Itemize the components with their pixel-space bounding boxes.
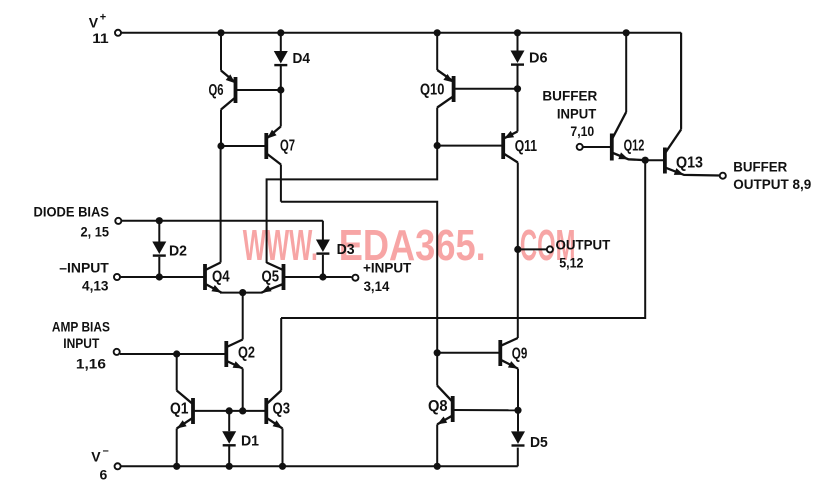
svg-text:Q13: Q13 bbox=[676, 155, 703, 172]
svg-text:+: + bbox=[100, 12, 106, 24]
svg-text:Q11: Q11 bbox=[515, 138, 538, 155]
svg-text:D3: D3 bbox=[337, 241, 355, 258]
svg-text:6: 6 bbox=[100, 466, 108, 482]
svg-text:3,14: 3,14 bbox=[364, 278, 390, 294]
svg-text:D4: D4 bbox=[293, 50, 311, 67]
svg-text:Q5: Q5 bbox=[262, 269, 280, 286]
svg-text:Q3: Q3 bbox=[273, 401, 291, 418]
svg-text:DIODE BIAS: DIODE BIAS bbox=[34, 204, 110, 220]
svg-text:WWW.: WWW. bbox=[243, 221, 318, 270]
svg-text:–INPUT: –INPUT bbox=[59, 260, 109, 276]
svg-text:D5: D5 bbox=[530, 434, 548, 451]
svg-text:AMP BIAS: AMP BIAS bbox=[52, 318, 110, 334]
svg-text:11: 11 bbox=[92, 30, 109, 46]
svg-text:Q1: Q1 bbox=[170, 401, 189, 418]
svg-text:Q9: Q9 bbox=[512, 346, 528, 363]
svg-text:EDA365.: EDA365. bbox=[339, 221, 486, 270]
svg-text:BUFFER: BUFFER bbox=[733, 159, 787, 175]
svg-text:Q10: Q10 bbox=[420, 81, 444, 98]
svg-text:1,16: 1,16 bbox=[76, 356, 106, 372]
svg-text:5,12: 5,12 bbox=[559, 255, 583, 271]
svg-text:Q2: Q2 bbox=[238, 345, 255, 362]
svg-text:INPUT: INPUT bbox=[557, 105, 597, 121]
svg-text:OUTPUT 8,9: OUTPUT 8,9 bbox=[733, 176, 811, 192]
svg-text:Q7: Q7 bbox=[280, 138, 295, 155]
svg-text:2, 15: 2, 15 bbox=[81, 224, 110, 240]
svg-text:–: – bbox=[103, 445, 109, 457]
svg-text:V: V bbox=[91, 448, 101, 464]
svg-text:Q4: Q4 bbox=[212, 269, 230, 286]
svg-text:Q8: Q8 bbox=[428, 398, 448, 415]
svg-text:OUTPUT: OUTPUT bbox=[556, 237, 611, 253]
svg-text:4,13: 4,13 bbox=[82, 278, 109, 294]
svg-text:D1: D1 bbox=[241, 433, 259, 450]
svg-text:BUFFER: BUFFER bbox=[542, 88, 597, 104]
svg-text:Q6: Q6 bbox=[209, 82, 224, 99]
svg-text:D2: D2 bbox=[169, 243, 187, 260]
svg-text:Q12: Q12 bbox=[624, 138, 645, 155]
svg-text:D6: D6 bbox=[529, 50, 548, 67]
svg-text:7,10: 7,10 bbox=[570, 123, 594, 139]
svg-text:INPUT: INPUT bbox=[63, 335, 99, 351]
svg-text:V: V bbox=[89, 15, 99, 31]
svg-text:+INPUT: +INPUT bbox=[363, 260, 412, 276]
